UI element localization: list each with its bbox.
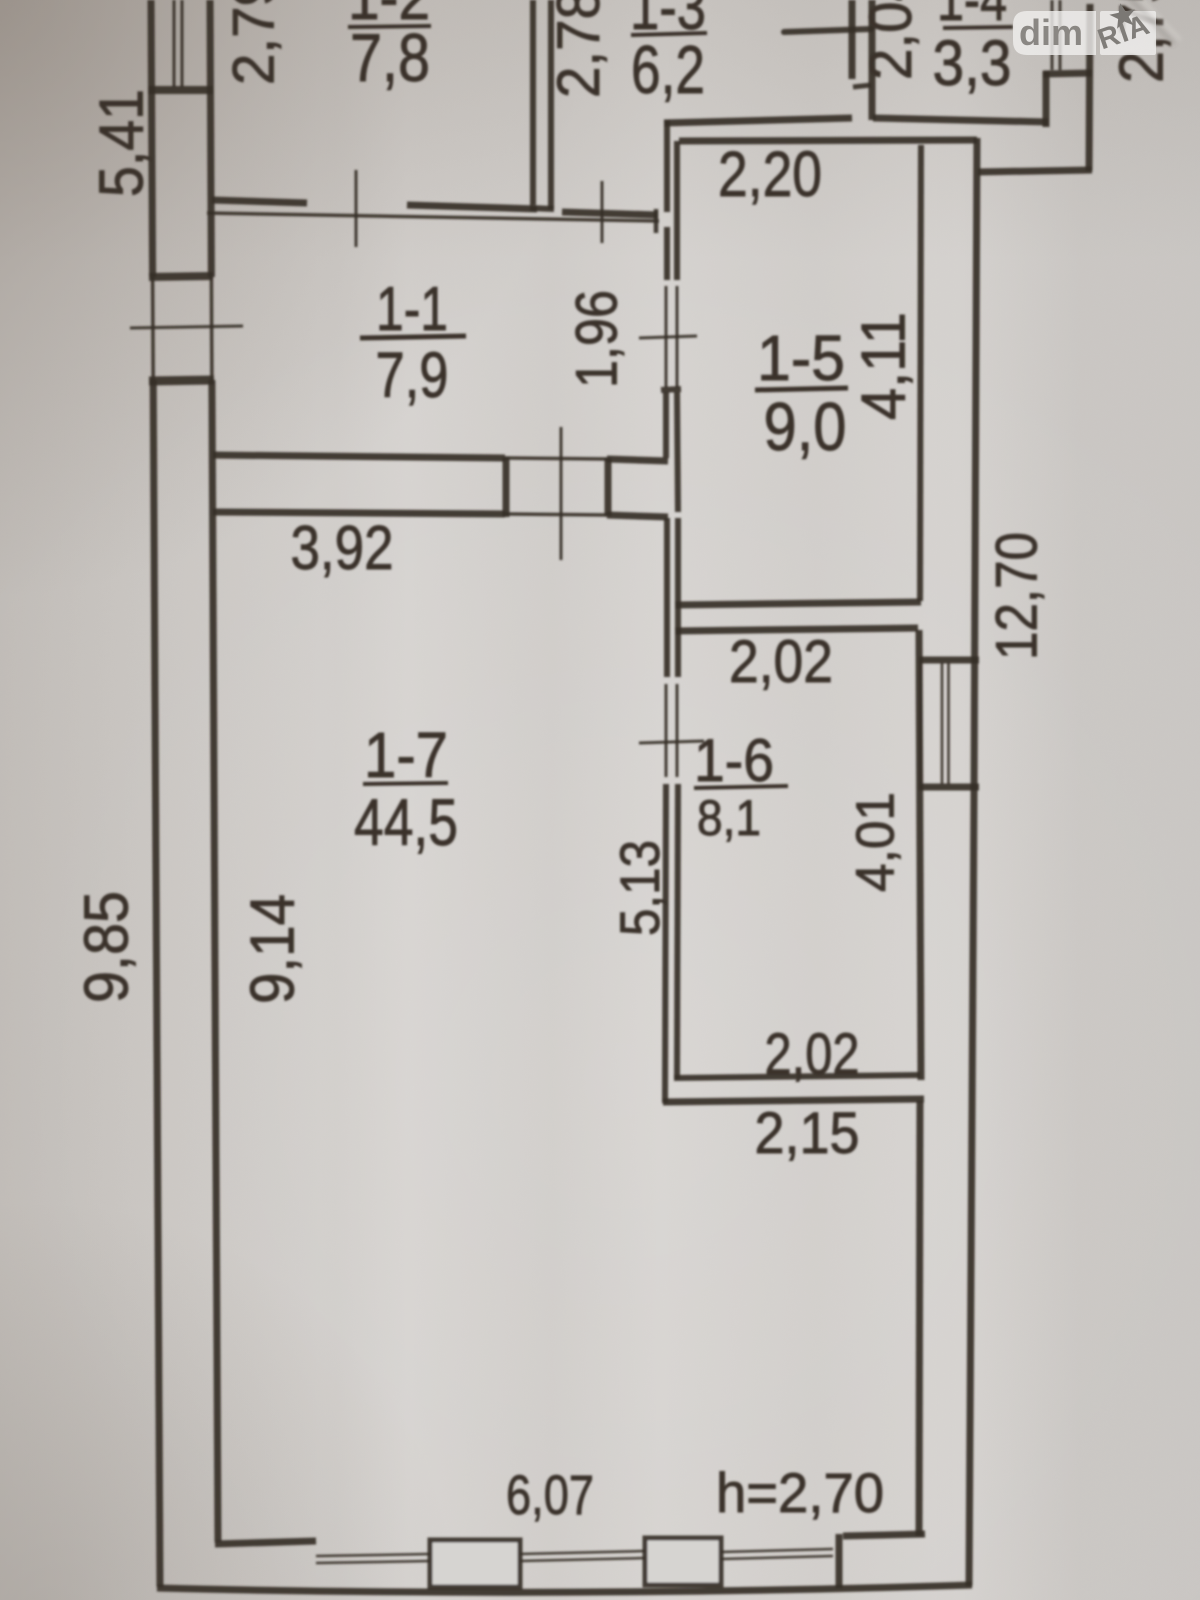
room 1-5 top inner wall [679, 140, 977, 141]
bottom inner wall left segment [215, 1541, 316, 1544]
svg-text:2,04: 2,04 [857, 0, 924, 80]
left inner wall line upper [210, 0, 211, 277]
watermark dim box [1013, 11, 1096, 55]
room 1-1 north thin line [207, 213, 659, 221]
room 1-6 top wall [675, 628, 918, 631]
svg-text:1-6: 1-6 [694, 727, 774, 794]
left wall cap y277 [149, 276, 213, 277]
bottom inner wall right segment [843, 1534, 925, 1536]
bottom outer wall line [157, 1585, 972, 1592]
bottom window C glazing [721, 1549, 833, 1559]
bottom wall pier 1 [430, 1540, 520, 1587]
bottom window C end cap [836, 1534, 843, 1588]
left outer wall line lower [153, 380, 160, 1587]
bottom wall pier 2 [645, 1538, 721, 1585]
wall 3,92 connector x608 [605, 458, 612, 516]
svg-text:2,79: 2,79 [221, 0, 286, 85]
wall 1-7/1-6 right line thin [676, 684, 679, 777]
tick y743 [639, 741, 704, 743]
room 1-2 right wall right line [548, 0, 554, 209]
room 1-5 right wall [920, 145, 921, 601]
wall 1-1/1-5 right line lower [677, 392, 678, 512]
room 1-1 north thick segment c [562, 212, 658, 215]
left wall cap y90 [148, 86, 213, 94]
east window inner thin line [919, 663, 922, 784]
watermark RIA box [1100, 11, 1156, 55]
left outer wall line window section [151, 277, 155, 380]
bottom window B glazing [520, 1551, 645, 1561]
cap x656 [654, 209, 659, 233]
tick x602 [601, 181, 604, 243]
room 1-2 right wall foot [530, 208, 554, 209]
svg-text:4,01: 4,01 [845, 792, 905, 892]
svg-text:2,02: 2,02 [729, 628, 833, 695]
wall 3,92 bottom line thin [505, 514, 608, 515]
svg-text:44,5: 44,5 [354, 785, 458, 859]
wall 1-7/1-6 left line thin [665, 684, 668, 777]
passage connector [853, 85, 871, 87]
room 1-6 floor wall [674, 1075, 920, 1078]
wall 1-1/1-5 left line mid [664, 227, 670, 280]
svg-text:5,13: 5,13 [608, 840, 671, 936]
room 1-4 bottom wall [873, 118, 1048, 122]
tick x356 [355, 170, 358, 247]
northeast corner outer vertical [1089, 4, 1090, 171]
watermark RIA text [1094, 9, 1154, 56]
svg-text:dim: dim [1019, 12, 1083, 53]
wall 1-1/1-5 right line thin [676, 286, 679, 388]
svg-text:9,85: 9,85 [72, 891, 141, 1003]
room 1-1 north thick segment a [212, 200, 307, 203]
watermark [1013, 0, 1180, 56]
left outer wall line upper [151, 0, 153, 277]
east window bottom cap [919, 784, 979, 791]
east outer wall [969, 138, 977, 1586]
east window glazing [942, 663, 949, 784]
northeast step top [1043, 73, 1092, 74]
svg-text:1-1: 1-1 [376, 275, 448, 344]
svg-text:9,0: 9,0 [764, 389, 847, 465]
wall 1-1/1-5 left line thin [665, 286, 668, 388]
left wall dimension tick y327 [130, 326, 243, 328]
tick y338 [639, 336, 697, 338]
paper crease shadow [1128, 0, 1174, 44]
wall 1-1/1-5 cap y390 [661, 389, 681, 390]
svg-text:1,96: 1,96 [564, 290, 629, 388]
northeast window glazing [1052, 0, 1060, 70]
svg-text:3,3: 3,3 [933, 27, 1012, 99]
svg-text:2,02: 2,02 [765, 1022, 860, 1087]
svg-text:7,8: 7,8 [350, 20, 430, 96]
wall 3,92 top line thick right [607, 459, 668, 461]
svg-text:6,2: 6,2 [631, 32, 705, 108]
wall 1-7/1-6 left line lower [665, 784, 666, 1103]
svg-text:3,92: 3,92 [291, 514, 394, 583]
left wall top window glazing [174, 0, 182, 87]
wall 1-7/1-6 right line upper [675, 518, 681, 677]
svg-text:12,70: 12,70 [984, 532, 1049, 660]
svg-text:1-7: 1-7 [364, 719, 448, 791]
wall 2,15 [663, 1099, 924, 1102]
wall 1-7/1-6 left line upper [664, 518, 670, 677]
wall 3,92 connector x506 [503, 457, 510, 517]
watermark star [1108, 1, 1139, 30]
wall 3,92 top line thick left [213, 455, 505, 458]
svg-text:2,20: 2,20 [718, 138, 822, 210]
wall 1-1/1-5 right line upper [674, 141, 680, 280]
passage wall x852 [849, 0, 856, 79]
svg-text:8,1: 8,1 [697, 790, 761, 846]
room 1-5 top outer wall left part [664, 118, 852, 123]
wall y31 [784, 29, 871, 32]
svg-text:4,11: 4,11 [849, 312, 918, 420]
left inner wall line window section [210, 277, 214, 380]
svg-text:9,14: 9,14 [238, 894, 307, 1004]
wall 3,92 bottom line thick right [607, 515, 668, 517]
svg-text:h=2,70: h=2,70 [716, 1461, 884, 1524]
svg-text:2,15: 2,15 [755, 1101, 860, 1166]
northeast step bottom [978, 170, 1092, 172]
svg-text:5,41: 5,41 [87, 89, 156, 197]
room 1-5 floor wall [675, 602, 921, 605]
svg-text:1-5: 1-5 [757, 322, 845, 394]
room 1-1 north thick segment b [407, 205, 537, 209]
left wall cap y380 [149, 380, 214, 381]
wall 3,92 bottom line thick left [213, 512, 505, 514]
room 1-4 right wall [1043, 71, 1050, 127]
room 1-6 right wall [919, 630, 921, 1080]
bottom window A glazing [316, 1554, 430, 1563]
wall 1-1/1-5 left line lower [663, 392, 669, 458]
wall 3,92 top line thin [505, 458, 608, 459]
room 1-2 right wall left line [530, 0, 536, 205]
tick x561 [560, 427, 563, 560]
svg-text:7,9: 7,9 [376, 339, 449, 411]
svg-text:6,07: 6,07 [506, 1463, 594, 1526]
wall 1-1/1-5 left line upper [664, 120, 670, 212]
svg-text:2,78: 2,78 [545, 0, 612, 98]
east window top cap [919, 657, 979, 664]
left inner wall line lower [212, 380, 218, 1542]
room 1-4 left wall [869, 0, 876, 120]
wall 1-7/1-6 right line lower [677, 784, 678, 1079]
room 1-7 right wall [919, 1101, 920, 1536]
